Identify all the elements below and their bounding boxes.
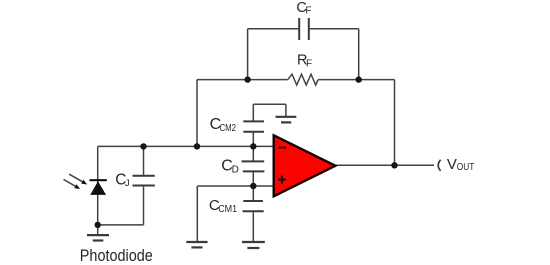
svg-text:OUT: OUT xyxy=(457,162,475,173)
svg-text:J: J xyxy=(125,178,130,189)
svg-text:F: F xyxy=(306,59,312,70)
svg-text:D: D xyxy=(232,164,239,175)
svg-text:F: F xyxy=(305,5,311,16)
svg-text:Photodiode: Photodiode xyxy=(80,246,153,265)
svg-text:V: V xyxy=(447,156,457,173)
svg-text:CM2: CM2 xyxy=(220,123,237,134)
svg-text:CM1: CM1 xyxy=(218,204,237,215)
